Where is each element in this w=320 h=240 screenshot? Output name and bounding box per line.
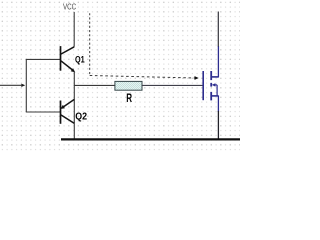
wire left vertical joining Q1 and Q2 bases xyxy=(25,59,27,112)
wire MOSFET drain to top edge xyxy=(217,12,219,47)
wire Q2 collector to ground rail xyxy=(73,123,75,139)
resistor R body xyxy=(115,81,142,90)
wire VCC down to Q1 collector xyxy=(73,12,75,47)
wire Q1 emitter to Q2 emitter with tap to resistor xyxy=(73,72,75,124)
svg-text:Q1: Q1 xyxy=(75,54,85,64)
transistor Q2 (PNP) xyxy=(61,99,75,123)
svg-text:Q2: Q2 xyxy=(75,112,87,123)
annotation dashed arrow from VCC to MOSFET gate xyxy=(90,13,196,78)
ground rail xyxy=(61,138,240,140)
transistor Q1 (NPN) xyxy=(61,46,75,71)
n-channel MOSFET xyxy=(203,46,218,112)
wire node to resistor R xyxy=(74,84,115,86)
input wire with arrow xyxy=(0,84,21,86)
wire to Q2 base xyxy=(26,111,60,113)
wire resistor to MOSFET gate xyxy=(142,84,203,86)
svg-text:R: R xyxy=(126,91,132,105)
svg-text:VCC: VCC xyxy=(63,2,76,11)
wire MOSFET source to ground rail xyxy=(217,111,219,139)
wire to Q1 base xyxy=(26,58,60,60)
MOSFET body arrow xyxy=(212,83,216,86)
